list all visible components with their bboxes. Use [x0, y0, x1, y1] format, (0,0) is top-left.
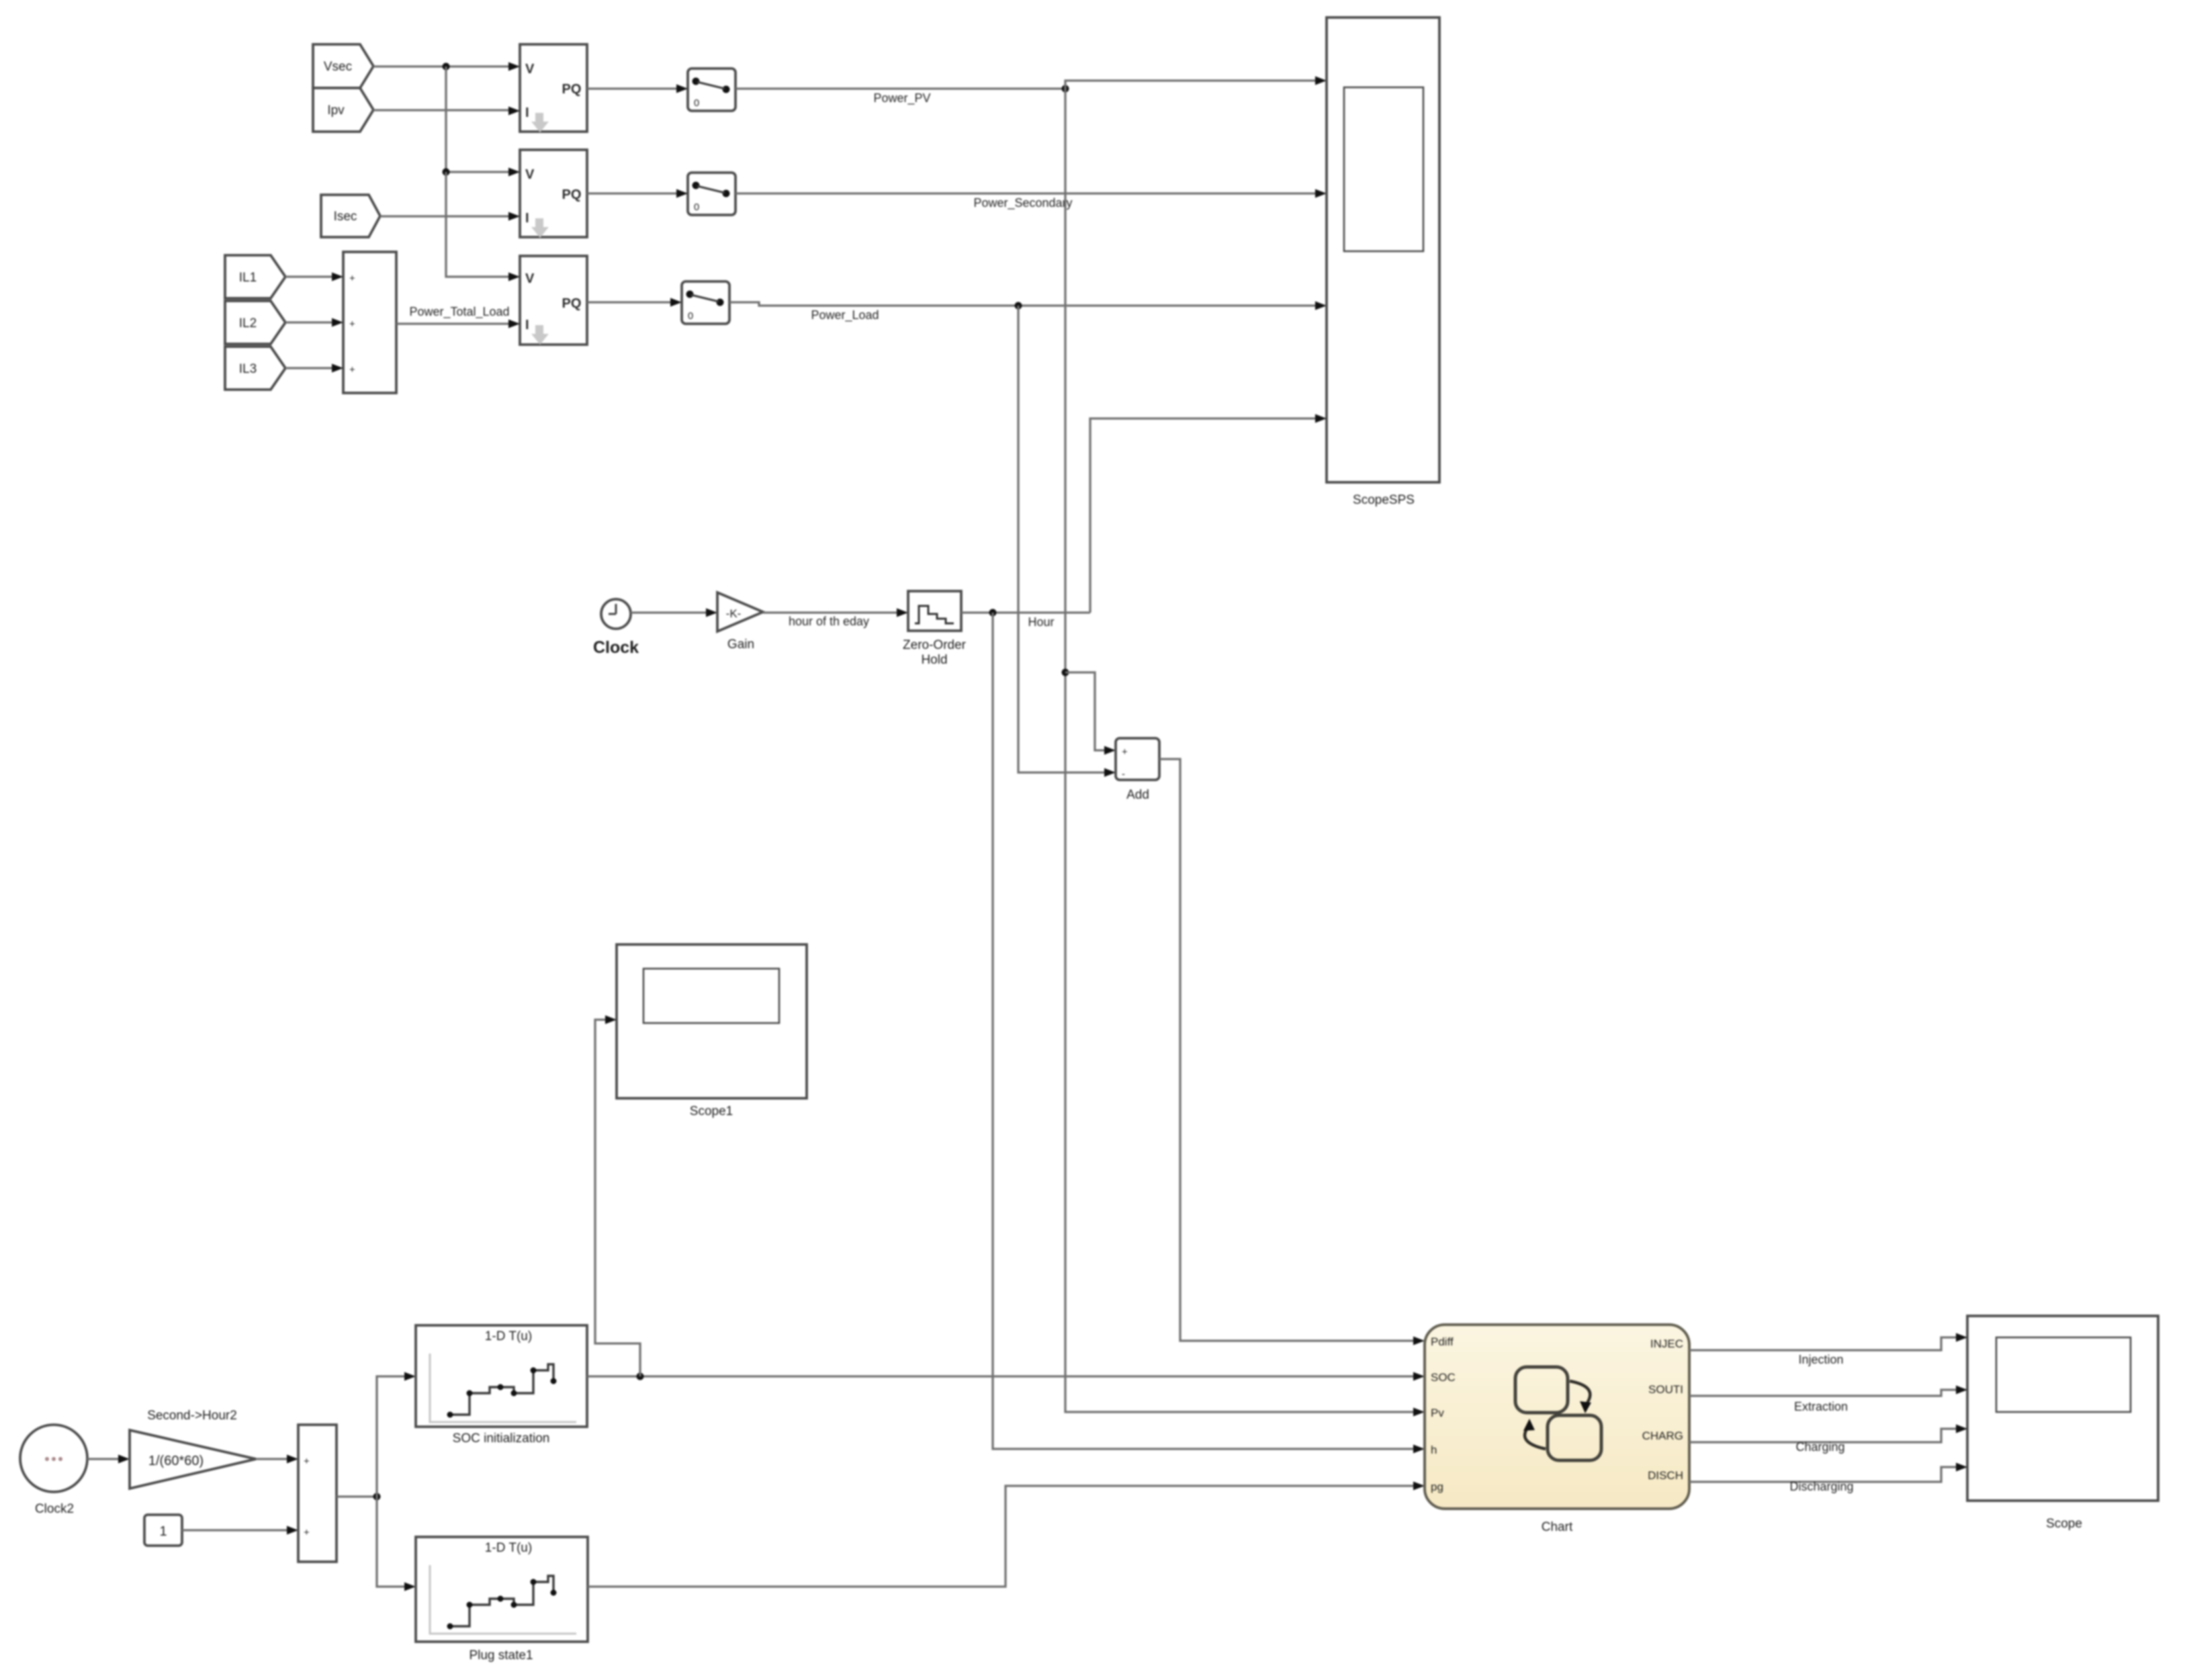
wire Chart INJEC to Scope input 1, signal Injection [1689, 1333, 1967, 1367]
svg-text:I: I [525, 105, 529, 120]
svg-text:I: I [525, 318, 529, 333]
wire IL1 to sum [285, 273, 343, 281]
wire Vsec to PQ1 V input [373, 62, 520, 71]
port tag Vsec [313, 44, 373, 88]
gain block Second->Hour2 (1/(60*60)) [130, 1409, 256, 1489]
stateflow chart block Chart [1425, 1325, 1689, 1534]
svg-text:Discharging: Discharging [1789, 1480, 1853, 1493]
wire Gain to Zero-Order Hold, signal hour of th eday [763, 609, 908, 629]
svg-text:Pdiff: Pdiff [1431, 1335, 1454, 1348]
svg-text:1/(60*60): 1/(60*60) [148, 1454, 204, 1468]
lookup table block SOC initialization (1-D T(u)) [416, 1325, 587, 1446]
wire SOC branch up to Scope1 [595, 1016, 640, 1377]
svg-text:Power_Load: Power_Load [811, 308, 879, 322]
svg-text:+: + [349, 273, 355, 284]
svg-text:-: - [1122, 768, 1125, 780]
port tag Ipv [313, 88, 373, 132]
svg-text:Hour: Hour [1028, 615, 1054, 629]
port tag IL3 [225, 347, 285, 390]
svg-text:Hold: Hold [921, 653, 947, 667]
svg-text:PQ: PQ [562, 82, 582, 97]
svg-text:+: + [304, 1527, 310, 1538]
wire SW2 to ScopeSPS input 2, signal Power_Secondary [735, 189, 1327, 211]
port tag IL2 [225, 301, 285, 344]
wire IL2 to sum [285, 318, 343, 327]
svg-text:Plug state1: Plug state1 [469, 1648, 533, 1663]
svg-text:0: 0 [694, 97, 699, 109]
svg-text:IL1: IL1 [239, 271, 257, 285]
gain block Gain (-K-) [717, 592, 763, 652]
clock block Clock [593, 599, 639, 657]
svg-text:Gain: Gain [727, 637, 754, 652]
svg-text:DISCH: DISCH [1648, 1469, 1683, 1482]
svg-text:Power_Secondary: Power_Secondary [973, 196, 1072, 210]
wire node Power_PV to ScopeSPS input 1 [1065, 77, 1327, 89]
svg-text:0: 0 [694, 202, 699, 213]
svg-text:IL2: IL2 [239, 316, 257, 330]
wire IL3 to sum [285, 364, 343, 373]
wire sum output to node [337, 1493, 381, 1501]
manual switch SW3 [682, 281, 729, 324]
svg-text:V: V [525, 167, 535, 182]
wire constant 1 to sum input 2 [182, 1526, 298, 1535]
svg-text:pg: pg [1431, 1480, 1443, 1493]
PQ measurement block 1 (PV) [520, 44, 587, 132]
sum block (time + 1) [298, 1425, 337, 1562]
svg-text:PQ: PQ [562, 187, 582, 202]
wire SOC initialization output to Chart SOC input [587, 1372, 1425, 1381]
svg-text:Zero-Order: Zero-Order [903, 638, 967, 652]
wire node down to Plug state1 input [377, 1497, 416, 1591]
svg-text:Ipv: Ipv [327, 103, 345, 118]
svg-text:I: I [525, 211, 529, 226]
wire Add output to Chart Pdiff input [1159, 759, 1425, 1345]
lookup table block Plug state1 (1-D T(u)) [416, 1537, 588, 1663]
wire PQ2 out to SW2 [587, 189, 688, 198]
svg-text:Vsec: Vsec [324, 60, 352, 74]
svg-text:Isec: Isec [334, 210, 357, 224]
wire PQ1 out to SW1 [587, 85, 688, 93]
svg-text:Chart: Chart [1542, 1520, 1573, 1534]
wire node up to SOC initialization input [377, 1372, 416, 1497]
svg-text:Scope1: Scope1 [690, 1104, 733, 1118]
svg-text:+: + [349, 364, 355, 375]
manual switch SW1 [688, 69, 735, 111]
svg-text:PQ: PQ [562, 296, 582, 311]
wire Clock to Gain [631, 609, 717, 617]
wire SW3 to ScopeSPS input 3, signal Power_Load [729, 302, 1327, 323]
scope block ScopeSPS [1327, 17, 1439, 507]
manual switch SW2 [688, 173, 735, 215]
svg-text:Second->Hour2: Second->Hour2 [147, 1409, 237, 1423]
svg-text:V: V [525, 271, 535, 286]
svg-text:hour of th eday: hour of th eday [789, 615, 869, 628]
sum block Add [1116, 738, 1159, 802]
wire Power_Load branch down to Add minus input [1018, 306, 1116, 777]
svg-text:1-D T(u): 1-D T(u) [485, 1329, 532, 1343]
wire Chart CHARG to Scope input 3, signal Charging [1689, 1425, 1967, 1454]
wire Vsec branch to PQ2 V input [443, 67, 521, 177]
wire Vsec branch to PQ3 V input [446, 172, 520, 281]
svg-text:SOC: SOC [1431, 1371, 1456, 1384]
PQ measurement block 3 (Load) [520, 256, 587, 345]
svg-text:Power_PV: Power_PV [873, 91, 930, 105]
svg-text:Pv: Pv [1431, 1407, 1444, 1419]
wire Zero-Order Hold to corner, node Hour [961, 609, 1090, 629]
svg-text:1: 1 [159, 1524, 167, 1539]
svg-text:Scope: Scope [2046, 1517, 2082, 1531]
svg-text:Add: Add [1126, 788, 1149, 802]
svg-text:CHARG: CHARG [1642, 1429, 1683, 1442]
wire Chart SOUTI to Scope input 2, signal Extraction [1689, 1386, 1967, 1414]
constant block 1 [144, 1515, 182, 1546]
port tag Isec [321, 195, 380, 237]
svg-text:Charging: Charging [1795, 1440, 1844, 1454]
clock block Clock2 [20, 1425, 87, 1516]
svg-text:Clock: Clock [593, 638, 639, 657]
svg-text:V: V [525, 62, 535, 77]
scope block Scope1 [617, 944, 807, 1118]
wire SW1 to node, signal Power_PV [735, 85, 1069, 106]
wire Clock2 to Gain Second->Hour2 [87, 1455, 130, 1464]
wire Plug state1 output to Chart pg input [588, 1482, 1425, 1587]
wire Power_PV trunk down to Chart Pv input [1062, 89, 1425, 1417]
PQ measurement block 2 (Secondary) [520, 150, 587, 238]
wire Gain2 to sum input 1 [256, 1455, 298, 1464]
wire Ipv to PQ1 I input [373, 107, 520, 116]
svg-text:+: + [1122, 746, 1128, 758]
svg-text:1-D T(u): 1-D T(u) [485, 1541, 532, 1555]
sum block (IL1+IL2+IL3) [343, 252, 396, 393]
wire sum to PQ3 I input, node Power_Total_Load [396, 305, 520, 328]
zero-order hold block [903, 591, 967, 667]
svg-text:-K-: -K- [726, 607, 742, 620]
scope block Scope [1967, 1316, 2158, 1531]
port tag IL1 [225, 255, 285, 298]
wire Hour up to ScopeSPS input 4 [1090, 414, 1327, 613]
svg-text:SOC initialization: SOC initialization [453, 1431, 550, 1446]
svg-text:Injection: Injection [1798, 1353, 1843, 1366]
svg-text:Power_Total_Load: Power_Total_Load [409, 305, 509, 319]
wire Hour down to Chart h input [993, 613, 1425, 1454]
wire PQ3 out to SW3 [587, 298, 682, 307]
svg-text:IL3: IL3 [239, 362, 257, 376]
svg-text:SOUTI: SOUTI [1648, 1383, 1683, 1396]
svg-text:+: + [349, 318, 355, 330]
svg-text:h: h [1431, 1444, 1437, 1456]
wire Power_PV branch to Add plus input [1065, 672, 1116, 755]
svg-text:Clock2: Clock2 [35, 1502, 74, 1516]
wire Chart DISCH to Scope input 4, signal Discharging [1689, 1463, 1967, 1494]
svg-text:+: + [304, 1456, 310, 1467]
svg-text:0: 0 [688, 310, 693, 322]
wire Isec to PQ2 I input [380, 212, 520, 221]
svg-text:ScopeSPS: ScopeSPS [1353, 493, 1415, 507]
svg-text:Extraction: Extraction [1794, 1400, 1848, 1413]
svg-text:INJEC: INJEC [1650, 1337, 1683, 1350]
